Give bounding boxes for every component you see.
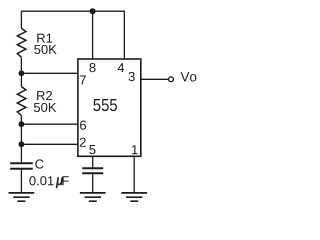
ground below pin 1 xyxy=(121,193,147,201)
wire R2 bottom to capacitor C xyxy=(20,116,22,163)
capacitor C plates xyxy=(10,163,33,169)
node pin2 junction xyxy=(19,141,25,147)
wire pin 4 xyxy=(123,11,125,59)
wire left rail top segment xyxy=(20,11,22,29)
node Vo output terminal xyxy=(169,77,174,82)
wire capacitor C to ground xyxy=(20,170,22,193)
IC U1 555 timer body xyxy=(78,59,141,156)
label Vo xyxy=(180,72,196,81)
wire pin 7 xyxy=(21,72,78,74)
wire pin 1 xyxy=(133,156,135,193)
pin 1 label xyxy=(132,145,138,154)
node pin7 junction xyxy=(19,70,25,76)
wire capacitor C2 to ground xyxy=(92,174,94,193)
pin 8 label xyxy=(89,63,95,72)
pin 5 label xyxy=(89,145,95,154)
pin 7 label xyxy=(80,76,86,85)
label R1 value 50K xyxy=(34,45,56,54)
wire pin 6 xyxy=(21,123,78,125)
wire pin 5 xyxy=(92,156,94,167)
label R2 value 50K xyxy=(34,103,56,112)
wire between R1 and R2 xyxy=(20,57,22,86)
wire pin 3 output xyxy=(141,78,168,80)
pin 6 label xyxy=(80,121,86,130)
label R2 xyxy=(37,91,52,100)
label R1 xyxy=(37,34,52,43)
pin 2 label xyxy=(80,138,86,147)
pin 3 label xyxy=(129,72,135,81)
label 555 xyxy=(93,99,117,111)
ground below C xyxy=(9,193,35,201)
node pin6 junction xyxy=(19,121,25,127)
label C xyxy=(35,159,43,168)
label C value micro symbol xyxy=(56,177,63,188)
resistor R2 xyxy=(17,87,26,116)
wire pin 8 xyxy=(92,11,94,59)
pin 4 label xyxy=(118,63,125,72)
wire pin 2 xyxy=(21,143,78,145)
label C value F xyxy=(62,176,68,185)
label C value 0.01 xyxy=(29,176,53,185)
ground below C2 xyxy=(80,193,106,201)
resistor R1 xyxy=(17,28,26,57)
capacitor C2 bypass plates xyxy=(82,168,103,173)
node VCC junction on top rail xyxy=(90,8,96,14)
wire top supply rail xyxy=(21,10,124,12)
